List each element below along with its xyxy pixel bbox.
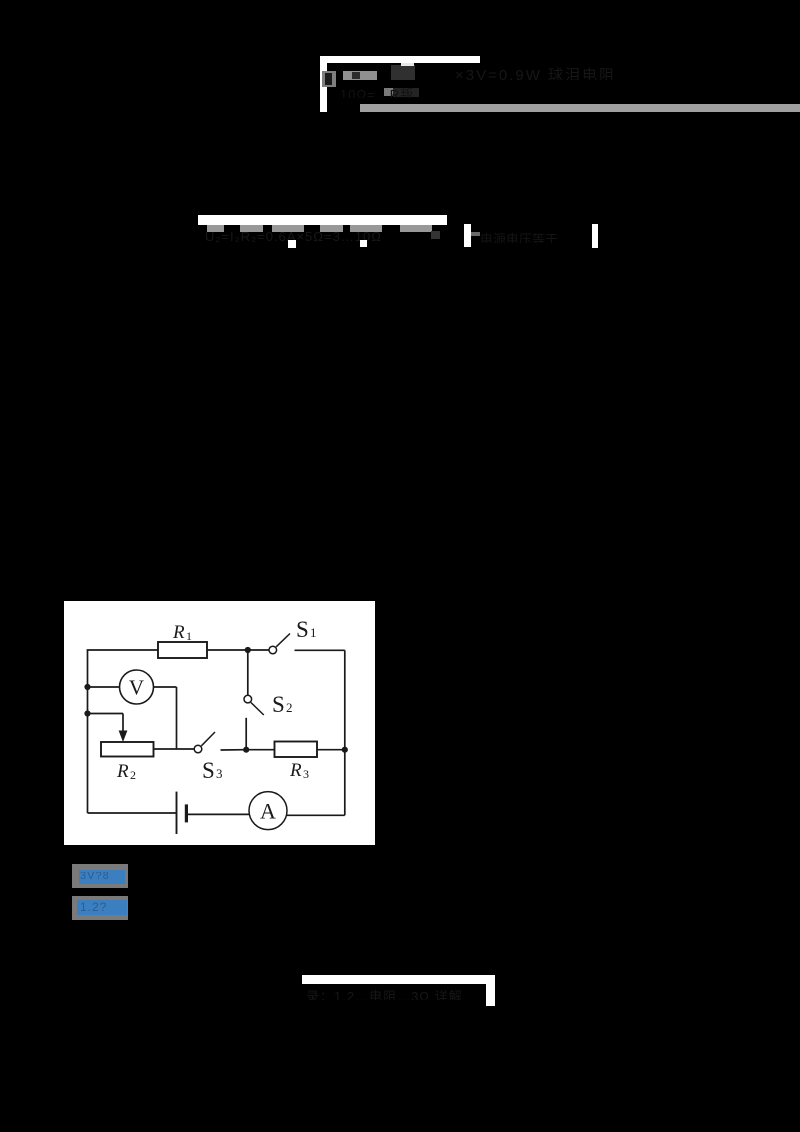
wire right vertical	[344, 650, 346, 815]
battery	[176, 792, 178, 834]
svg-text:3: 3	[303, 767, 309, 781]
svg-text:R: R	[289, 760, 302, 781]
wire S3 to node	[221, 749, 247, 751]
wire S1 to right	[295, 649, 345, 651]
node dot V left	[84, 684, 90, 690]
voltmeter V	[120, 670, 154, 704]
wire R3 to right node	[317, 749, 345, 751]
svg-text:S: S	[202, 758, 215, 783]
faint ghost text right box	[480, 229, 590, 243]
node dot bottom mid	[243, 747, 249, 753]
svg-text:S: S	[296, 617, 309, 642]
wire node to S1	[248, 649, 269, 651]
faint ghost text top block	[455, 64, 745, 80]
wire top left	[87, 649, 158, 651]
wire R2 to S3	[154, 748, 195, 750]
svg-text:2: 2	[130, 768, 136, 782]
svg-text:R: R	[172, 622, 185, 643]
svg-text:1: 1	[186, 629, 192, 643]
resistor R3	[275, 742, 318, 758]
svg-text:R: R	[116, 761, 129, 782]
ammeter A	[249, 792, 287, 830]
wire bottom left	[88, 812, 177, 814]
wire tap branch	[88, 713, 124, 715]
svg-text:3: 3	[216, 766, 223, 781]
wire R1 to node	[207, 649, 248, 651]
svg-text:A: A	[260, 799, 276, 824]
faint ghost text formula row	[205, 229, 505, 242]
node dot tap	[84, 710, 90, 716]
svg-text:1: 1	[310, 625, 317, 640]
switch S1	[269, 646, 277, 654]
svg-text:V: V	[129, 676, 144, 700]
wire left vertical to V	[88, 686, 120, 688]
wire left vertical	[87, 650, 89, 813]
wiper arrow of R2	[119, 731, 128, 743]
wire node to R3	[246, 749, 274, 751]
svg-text:2: 2	[286, 700, 293, 715]
switch S3	[194, 745, 202, 753]
faint ghost text bottom block	[306, 986, 484, 1000]
wire battery to A	[186, 813, 249, 815]
resistor R1	[158, 642, 207, 658]
node dot top	[245, 647, 251, 653]
wire S2 branch upper	[247, 650, 249, 695]
svg-text:S: S	[272, 692, 285, 717]
potentiometer R2	[101, 742, 154, 757]
node dot bottom right	[342, 747, 348, 753]
wire A to right vertical	[287, 814, 345, 816]
long gray bar	[360, 104, 800, 112]
wire V to down lead	[154, 686, 177, 688]
switch S2	[244, 695, 252, 703]
wire S2 lower stub	[245, 718, 247, 750]
